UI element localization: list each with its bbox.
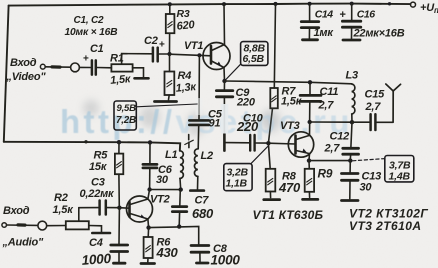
svg-text:22мк×16В: 22мк×16В bbox=[353, 28, 405, 40]
svg-text:1000: 1000 bbox=[81, 251, 112, 268]
svg-text:620: 620 bbox=[176, 19, 196, 33]
node base VT1 bbox=[167, 52, 171, 56]
capacitor C2 bbox=[152, 48, 155, 62]
ground C4 bbox=[114, 262, 126, 265]
callout box 3.7V bbox=[385, 156, 414, 182]
wire tank bottom bbox=[310, 121, 352, 123]
ground R8 bbox=[264, 198, 280, 201]
inductor L1 bbox=[180, 151, 183, 179]
node rail-VT1 bbox=[222, 2, 226, 6]
svg-text:R9: R9 bbox=[318, 166, 333, 180]
svg-text:C1, C2: C1, C2 bbox=[74, 15, 105, 26]
capacitor C4 bbox=[118, 208, 120, 244]
svg-text:R1: R1 bbox=[110, 53, 124, 65]
callout box 9.5V bbox=[114, 101, 136, 130]
transistor VT1 bbox=[203, 43, 230, 70]
svg-text:1мк: 1мк bbox=[314, 27, 335, 39]
antenna bbox=[392, 91, 394, 123]
terminal +U bbox=[411, 2, 416, 7]
svg-text:VT1: VT1 bbox=[184, 40, 203, 52]
wire VT2 collector bbox=[148, 190, 150, 199]
svg-text:10мк × 16В: 10мк × 16В bbox=[65, 27, 119, 38]
node C12-C13 bbox=[348, 158, 352, 162]
svg-text:2,7: 2,7 bbox=[365, 101, 382, 113]
resistor R9 bbox=[308, 161, 310, 169]
svg-text:R5: R5 bbox=[94, 150, 109, 162]
capacitor C8 bbox=[191, 244, 209, 247]
capacitor C9 bbox=[223, 81, 225, 89]
svg-text:6,5В: 6,5В bbox=[243, 53, 265, 65]
watermark smudges bbox=[83, 100, 278, 136]
watermark text bbox=[60, 103, 353, 140]
node VT2 emitter bbox=[146, 225, 150, 229]
node VT1 emitter bbox=[222, 79, 226, 83]
svg-text:1,3к: 1,3к bbox=[175, 81, 198, 95]
svg-text:L1: L1 bbox=[165, 149, 178, 161]
resistor R7 bbox=[274, 4, 275, 88]
node tank bottom bbox=[308, 120, 312, 124]
svg-text:470: 470 bbox=[278, 180, 301, 195]
ground C13 bbox=[342, 199, 359, 202]
resistor R5 bbox=[118, 142, 120, 153]
svg-text:L3: L3 bbox=[346, 70, 359, 82]
inductor L3 bbox=[352, 84, 355, 114]
bead audio bbox=[38, 221, 47, 230]
core L1 L2 bbox=[188, 135, 190, 140]
capacitor C10 bbox=[223, 134, 226, 151]
wire emitter bus bbox=[225, 81, 352, 84]
capacitor C16 bbox=[351, 4, 353, 20]
node rail-R3 bbox=[168, 2, 172, 6]
wire bottom supply bbox=[4, 142, 180, 151]
inductor L2 bbox=[194, 149, 197, 177]
wire VT1 collector bbox=[223, 4, 226, 44]
svg-text:L2: L2 bbox=[201, 150, 214, 162]
capacitor C13 bbox=[349, 161, 351, 173]
ground C14 bbox=[303, 38, 318, 41]
bead video bbox=[71, 63, 80, 72]
svg-text:220: 220 bbox=[236, 119, 259, 134]
svg-text:C14: C14 bbox=[315, 9, 333, 21]
wire VT3 emitter bbox=[308, 154, 311, 161]
wire video input bbox=[45, 66, 70, 68]
node C7 bottom bbox=[177, 224, 181, 228]
wire base-VT3 bbox=[268, 142, 295, 145]
svg-text:C16: C16 bbox=[357, 9, 375, 21]
wire +U top rail bbox=[9, 4, 411, 6]
ground C16 bbox=[343, 39, 360, 42]
svg-text:1,1В: 1,1В bbox=[226, 178, 248, 190]
wire node-VT1 base bbox=[170, 54, 212, 56]
ground R9 bbox=[303, 198, 318, 201]
node VT3 base bbox=[266, 141, 270, 145]
svg-text:30: 30 bbox=[360, 182, 373, 194]
wire R2 to ground bbox=[89, 226, 102, 232]
node rail-C16 bbox=[350, 2, 354, 6]
svg-text:„Video": „Video" bbox=[6, 71, 47, 83]
svg-text:+: + bbox=[340, 9, 346, 21]
capacitor C11 bbox=[309, 82, 311, 94]
wire bead-R2 bbox=[47, 225, 66, 227]
capacitor C6 bbox=[149, 142, 151, 163]
svg-text:„Audio": „Audio" bbox=[2, 237, 44, 249]
node base-C5 tap bbox=[197, 53, 201, 57]
capacitor C15 bbox=[352, 121, 369, 123]
svg-text:VT3: VT3 bbox=[280, 120, 300, 132]
node rail-C14 bbox=[308, 2, 312, 6]
wire VT3 collector bbox=[309, 122, 311, 135]
svg-text:VT2: VT2 bbox=[150, 194, 170, 206]
callout box 3.2V bbox=[224, 164, 252, 191]
svg-text:Вход: Вход bbox=[3, 205, 30, 217]
ground R1 bbox=[135, 77, 149, 80]
capacitor C12 bbox=[351, 122, 352, 147]
wire R1 to ground bbox=[133, 68, 144, 78]
svg-text:9,5В: 9,5В bbox=[117, 103, 137, 114]
svg-text:+: + bbox=[83, 54, 89, 65]
ground L2 bbox=[190, 189, 204, 192]
svg-text:R4: R4 bbox=[178, 70, 192, 82]
wire C2-node bbox=[159, 53, 170, 55]
ground R4 bbox=[155, 100, 177, 103]
capacitor C14 bbox=[309, 4, 311, 21]
resistor R8 bbox=[268, 143, 270, 169]
svg-text:C4: C4 bbox=[89, 237, 103, 249]
terminal Video input bbox=[40, 64, 45, 69]
svg-text:+: + bbox=[159, 40, 165, 51]
svg-text:Вход: Вход bbox=[10, 57, 37, 69]
resistor R6 bbox=[147, 228, 149, 237]
svg-text:1,5к: 1,5к bbox=[281, 96, 303, 108]
node VT2 base bbox=[117, 206, 121, 210]
wire node-VT2 base bbox=[119, 207, 129, 210]
svg-text:R3: R3 bbox=[177, 8, 190, 20]
svg-text:C11: C11 bbox=[320, 86, 339, 98]
svg-text:1,5к: 1,5к bbox=[110, 73, 133, 87]
wire C6-L1 bbox=[150, 189, 181, 191]
capacitor C5 bbox=[198, 55, 200, 119]
svg-text:C1: C1 bbox=[90, 43, 104, 55]
svg-text:1,5к: 1,5к bbox=[53, 204, 75, 216]
resistor R2 bbox=[66, 221, 89, 229]
svg-text:C3: C3 bbox=[91, 177, 105, 189]
node L3 bottom bbox=[350, 120, 354, 124]
wire R1 top tap bbox=[122, 54, 152, 65]
callout box 8.8V bbox=[241, 42, 268, 66]
svg-text:0,22мк: 0,22мк bbox=[80, 188, 116, 200]
svg-text:30: 30 bbox=[156, 174, 169, 186]
svg-text:C7: C7 bbox=[195, 195, 210, 207]
node C6-L1 bbox=[147, 187, 151, 191]
wire R2 top tap bbox=[78, 208, 80, 222]
capacitor C3 bbox=[98, 201, 101, 215]
svg-text:2,7: 2,7 bbox=[318, 100, 335, 112]
node emitter bus C11 bbox=[308, 80, 312, 84]
svg-text:VT3 2Т610А: VT3 2Т610А bbox=[349, 219, 422, 233]
node VT3 emitter bbox=[307, 158, 311, 162]
svg-text:430: 430 bbox=[156, 245, 179, 260]
wire left border bbox=[4, 6, 9, 142]
svg-text:91: 91 bbox=[209, 118, 221, 130]
capacitor C1 bbox=[91, 60, 94, 74]
wire VT2 emitter bbox=[147, 219, 150, 228]
node supply C6 bbox=[148, 140, 152, 144]
node rail blob bbox=[388, 2, 391, 5]
svg-text:C15: C15 bbox=[365, 89, 386, 101]
wire bead-C1 bbox=[80, 66, 91, 68]
svg-text:R2: R2 bbox=[54, 192, 68, 204]
node supply R5 bbox=[117, 140, 121, 144]
svg-text:2,7: 2,7 bbox=[324, 143, 341, 155]
terminal Audio input bbox=[2, 223, 7, 228]
wire emitter-C8 bbox=[149, 226, 199, 244]
transistor VT3 bbox=[288, 132, 313, 157]
svg-text:VT1 КТ630Б: VT1 КТ630Б bbox=[253, 208, 324, 222]
ground R6 bbox=[141, 262, 155, 265]
svg-text:680: 680 bbox=[192, 206, 214, 221]
svg-text:1000: 1000 bbox=[211, 253, 241, 268]
node L1 bottom bbox=[179, 187, 183, 191]
node supply blob bbox=[84, 140, 87, 143]
wire patch under watermark bbox=[221, 104, 228, 134]
resistor R4 bbox=[169, 54, 171, 71]
ground C8 bbox=[197, 262, 209, 265]
wire C1-R1 bbox=[97, 67, 111, 69]
svg-text:15к: 15к bbox=[89, 161, 108, 173]
transistor VT2 bbox=[127, 196, 153, 222]
resistor R3 bbox=[169, 4, 171, 14]
ground R2 bbox=[92, 232, 110, 235]
wire emitter-C13 bbox=[309, 160, 350, 162]
svg-text:7,2В: 7,2В bbox=[116, 115, 136, 126]
svg-text:220: 220 bbox=[236, 97, 256, 109]
capacitor C7 bbox=[179, 190, 182, 206]
wire tap-C3 bbox=[79, 207, 98, 209]
svg-text:C12: C12 bbox=[330, 131, 350, 143]
svg-text:C2: C2 bbox=[144, 35, 158, 47]
wire audio input bbox=[7, 224, 38, 226]
svg-text:1,4В: 1,4В bbox=[389, 171, 411, 183]
wire VT1 emitter bbox=[223, 68, 226, 82]
node rail-R7 bbox=[274, 2, 278, 6]
resistor R1 bbox=[111, 64, 132, 71]
